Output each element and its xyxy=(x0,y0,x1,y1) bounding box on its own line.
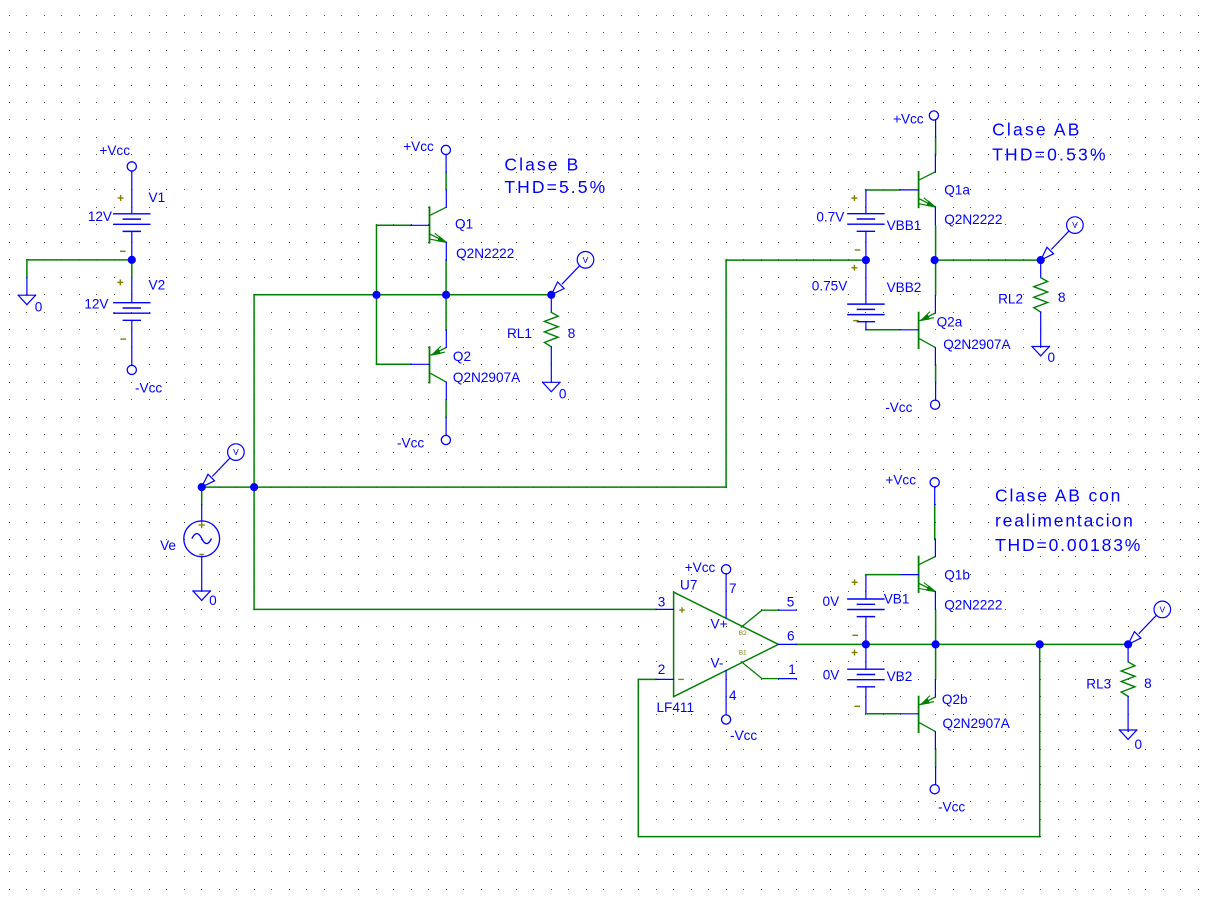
svg-text:VB2: VB2 xyxy=(887,669,913,684)
svg-text:Q2N2222: Q2N2222 xyxy=(944,212,1002,227)
svg-text:+Vcc: +Vcc xyxy=(403,139,434,154)
svg-text:6: 6 xyxy=(787,629,795,644)
svg-text:Q2b: Q2b xyxy=(942,692,968,707)
svg-text:0.75V: 0.75V xyxy=(812,279,848,294)
svg-text:B1: B1 xyxy=(739,650,747,657)
svg-text:12V: 12V xyxy=(84,297,108,312)
svg-text:3: 3 xyxy=(658,594,666,609)
svg-text:Clase AB con: Clase AB con xyxy=(995,486,1122,506)
svg-text:+Vcc: +Vcc xyxy=(99,143,130,158)
svg-text:8: 8 xyxy=(568,326,576,341)
svg-text:-Vcc: -Vcc xyxy=(397,436,424,451)
svg-text:2: 2 xyxy=(658,662,666,677)
svg-text:0: 0 xyxy=(209,593,217,608)
svg-text:VBB1: VBB1 xyxy=(887,218,922,233)
svg-text:VB1: VB1 xyxy=(884,592,910,607)
svg-text:0.7V: 0.7V xyxy=(816,210,844,225)
svg-text:RL1: RL1 xyxy=(507,326,532,341)
svg-text:RL3: RL3 xyxy=(1086,677,1111,692)
svg-text:Q2N2222: Q2N2222 xyxy=(456,246,514,261)
svg-text:0: 0 xyxy=(35,299,43,314)
svg-text:5: 5 xyxy=(787,595,795,610)
svg-text:0: 0 xyxy=(1048,350,1056,365)
svg-text:1: 1 xyxy=(788,662,796,677)
svg-text:V: V xyxy=(583,255,589,265)
svg-text:RL2: RL2 xyxy=(998,292,1023,307)
svg-text:VBB2: VBB2 xyxy=(887,280,922,295)
svg-text:Q2N2907A: Q2N2907A xyxy=(943,337,1011,352)
svg-text:Q1: Q1 xyxy=(455,217,473,232)
svg-text:V: V xyxy=(233,447,239,457)
svg-text:+Vcc: +Vcc xyxy=(893,111,924,126)
svg-text:Q2N2222: Q2N2222 xyxy=(944,597,1002,612)
svg-text:Q1a: Q1a xyxy=(944,183,970,198)
svg-text:THD=5.5%: THD=5.5% xyxy=(504,177,607,197)
svg-text:THD=0.00183%: THD=0.00183% xyxy=(995,535,1142,555)
svg-text:V+: V+ xyxy=(711,616,728,631)
svg-text:4: 4 xyxy=(729,688,737,703)
svg-text:7: 7 xyxy=(729,581,737,596)
svg-text:0: 0 xyxy=(1135,737,1143,752)
svg-text:-Vcc: -Vcc xyxy=(730,728,757,743)
svg-text:+Vcc: +Vcc xyxy=(685,560,716,575)
svg-text:0V: 0V xyxy=(823,667,840,682)
svg-text:V: V xyxy=(1072,220,1078,230)
svg-text:12V: 12V xyxy=(88,209,112,224)
svg-text:V: V xyxy=(1159,604,1165,614)
svg-text:Clase B: Clase B xyxy=(504,155,580,175)
svg-text:-Vcc: -Vcc xyxy=(135,381,162,396)
svg-text:V-: V- xyxy=(711,656,724,671)
svg-text:Q2N2907A: Q2N2907A xyxy=(943,716,1011,731)
svg-text:0V: 0V xyxy=(823,594,840,609)
svg-text:realimentacion: realimentacion xyxy=(995,510,1135,530)
svg-text:Q2: Q2 xyxy=(453,349,471,364)
svg-text:V2: V2 xyxy=(149,278,166,293)
svg-text:0: 0 xyxy=(559,387,567,402)
svg-text:-Vcc: -Vcc xyxy=(885,400,912,415)
svg-text:B2: B2 xyxy=(739,630,747,637)
svg-text:-Vcc: -Vcc xyxy=(938,800,965,815)
svg-text:8: 8 xyxy=(1058,290,1066,305)
svg-text:Q1b: Q1b xyxy=(944,567,970,582)
svg-text:LF411: LF411 xyxy=(657,700,695,715)
svg-text:+Vcc: +Vcc xyxy=(885,473,916,488)
svg-text:THD=0.53%: THD=0.53% xyxy=(992,144,1108,164)
svg-text:U7: U7 xyxy=(680,578,697,593)
svg-text:8: 8 xyxy=(1144,676,1152,691)
svg-text:Ve: Ve xyxy=(160,538,176,553)
svg-text:Q2N2907A: Q2N2907A xyxy=(453,370,521,385)
svg-text:Q2a: Q2a xyxy=(937,315,963,330)
svg-text:V1: V1 xyxy=(149,190,166,205)
svg-text:Clase AB: Clase AB xyxy=(992,120,1082,140)
